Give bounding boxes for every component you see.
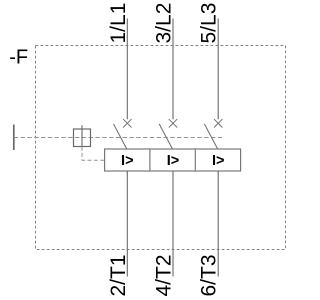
pole 3 feed line 5/L3	[217, 19, 219, 120]
svg-text:3/L2: 3/L2	[153, 3, 176, 44]
pole 3 load line 6/T3	[217, 171, 219, 277]
pole 3 switch blade	[204, 124, 217, 149]
svg-text:1/L1: 1/L1	[107, 3, 130, 44]
svg-text:4/T2: 4/T2	[153, 254, 176, 296]
pole 1 contact cross	[123, 119, 131, 127]
svg-text:-F: -F	[9, 46, 28, 68]
pole 1 feed line 1/L1	[126, 19, 128, 120]
svg-text:6/T3: 6/T3	[198, 254, 221, 296]
pole 2 feed line 3/L2	[172, 19, 174, 120]
mechanical linkage dashed line	[14, 137, 222, 139]
enclosure dashed border	[36, 46, 286, 250]
actuator vertical line through square	[81, 125, 83, 146]
pole 1 load line 2/T1	[126, 171, 128, 277]
divider 1	[149, 149, 151, 171]
pole 2 load line 4/T2	[172, 171, 174, 277]
operating mechanism square	[74, 129, 91, 147]
pole 2 switch blade	[159, 124, 172, 149]
svg-text:I>: I>	[167, 153, 180, 169]
dashed link square to trip unit	[82, 147, 105, 161]
pole 3 contact cross	[214, 119, 222, 127]
pole 2 contact cross	[169, 119, 177, 127]
svg-text:I>: I>	[121, 153, 134, 169]
divider 2	[194, 149, 196, 171]
pole 1 switch blade	[114, 124, 127, 149]
svg-text:5/L3: 5/L3	[198, 3, 221, 44]
trip unit box	[105, 149, 241, 171]
svg-text:2/T1: 2/T1	[107, 254, 130, 296]
svg-text:I>: I>	[212, 153, 225, 169]
terminal bar (left actuator end)	[13, 125, 15, 151]
